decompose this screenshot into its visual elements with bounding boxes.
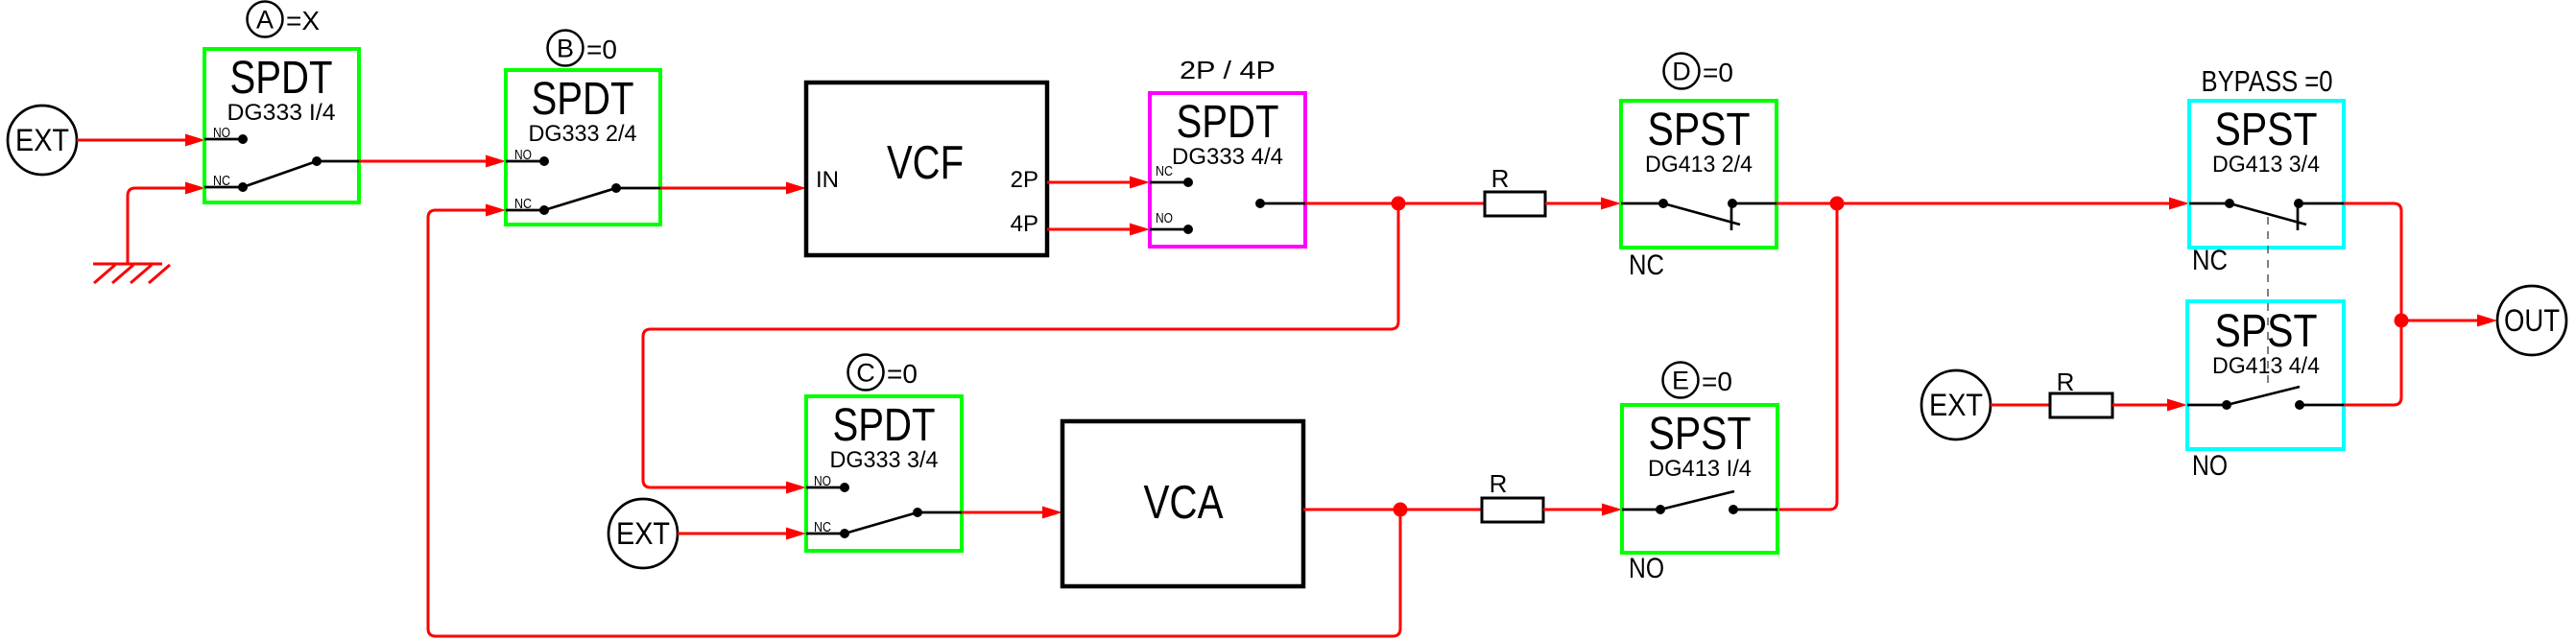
wire D to BYPASS <box>1777 198 2189 210</box>
wire VCA to R2 <box>1303 509 1482 511</box>
terminal EXT bypass <box>1921 370 1991 439</box>
wire EXT to A NO <box>77 134 205 147</box>
svg-text:BYPASS =0: BYPASS =0 <box>2202 64 2333 98</box>
svg-text:NO: NO <box>2192 450 2228 482</box>
resistor R1 <box>1485 164 1545 216</box>
svg-text:SPST: SPST <box>1648 105 1751 155</box>
block VCF <box>806 83 1047 255</box>
wire EXT to R3 <box>1991 404 2050 407</box>
wire A to B <box>359 155 506 168</box>
label 2P / 4P <box>1180 56 1276 84</box>
label C=0 <box>848 355 918 391</box>
switch C SPDT DG333 3/4 <box>806 396 962 551</box>
svg-text:NC: NC <box>1629 249 1664 281</box>
ground <box>93 264 170 283</box>
wire ground to A NC <box>128 182 205 265</box>
svg-text:DG333 3/4: DG333 3/4 <box>830 447 939 473</box>
wire VCF 2P to SPDT NC <box>1047 177 1150 189</box>
svg-text:B: B <box>557 35 574 63</box>
svg-text:SPDT: SPDT <box>833 400 936 451</box>
svg-text:SPDT: SPDT <box>1177 97 1279 148</box>
wire R3 to BYPASS lower <box>2112 399 2187 412</box>
svg-text:R: R <box>1490 469 1508 498</box>
svg-text:NC: NC <box>2192 245 2228 276</box>
terminal EXT input A <box>8 106 77 175</box>
terminal EXT VCA <box>608 499 678 568</box>
node junction VCF out <box>1392 197 1406 211</box>
svg-text:DG413 4/4: DG413 4/4 <box>2212 353 2320 379</box>
wire R2 to E <box>1543 504 1622 516</box>
svg-text:2P: 2P <box>1011 167 1038 193</box>
wire feedback VCA out to B NC <box>428 204 1400 637</box>
svg-text:E: E <box>1672 367 1689 395</box>
wire B to VCF <box>660 182 806 195</box>
svg-text:2P / 4P: 2P / 4P <box>1180 56 1276 84</box>
label E=0 <box>1663 363 1732 398</box>
terminal OUT <box>2497 286 2566 355</box>
wire EXT to C NC <box>678 528 806 540</box>
svg-text:NO: NO <box>1629 553 1664 584</box>
resistor R3 <box>2050 368 2112 417</box>
label D=0 <box>1664 54 1733 89</box>
svg-text:SPST: SPST <box>1649 409 1752 460</box>
svg-text:VCA: VCA <box>1144 477 1224 529</box>
svg-text:DG413 I/4: DG413 I/4 <box>1648 456 1752 482</box>
svg-text:NO: NO <box>1156 211 1173 226</box>
svg-text:=0: =0 <box>887 359 918 389</box>
mechanical link dashed <box>2267 217 2269 384</box>
wire junction to C NO <box>643 203 1398 494</box>
svg-text:SPST: SPST <box>2215 306 2318 357</box>
wire R1 to D <box>1545 198 1621 210</box>
svg-text:EXT: EXT <box>15 123 69 157</box>
svg-text:R: R <box>1491 164 1510 193</box>
wire BYPASS lower to OUT junction <box>2344 320 2401 405</box>
switch D SPST DG413 2/4 <box>1621 101 1777 248</box>
svg-text:EXT: EXT <box>1929 388 1983 422</box>
label A=X <box>248 2 321 37</box>
svg-text:EXT: EXT <box>616 516 670 551</box>
svg-text:SPDT: SPDT <box>230 53 333 104</box>
svg-text:=X: =X <box>286 6 320 36</box>
wire junction to OUT <box>2401 315 2497 327</box>
svg-text:4P: 4P <box>1011 211 1038 237</box>
switch B SPDT DG333 2/4 <box>506 70 660 225</box>
svg-text:IN: IN <box>816 167 839 193</box>
svg-text:SPST: SPST <box>2215 105 2318 155</box>
switch E SPST DG413 1/4 <box>1622 405 1777 553</box>
svg-text:A: A <box>256 6 274 35</box>
switch A SPDT DG333 1/4 <box>204 49 359 202</box>
node junction VCA out <box>1394 503 1408 517</box>
svg-text:DG333 4/4: DG333 4/4 <box>1172 144 1283 170</box>
svg-text:DG413 3/4: DG413 3/4 <box>2212 152 2320 178</box>
block VCA <box>1062 421 1303 586</box>
svg-text:=0: =0 <box>1702 367 1732 396</box>
svg-text:SPDT: SPDT <box>532 74 634 125</box>
svg-text:DG333 2/4: DG333 2/4 <box>529 121 637 147</box>
svg-text:D: D <box>1672 58 1691 86</box>
label B=0 <box>548 31 617 66</box>
switch BYPASS upper SPST DG413 3/4 <box>2189 101 2344 248</box>
wire E to junction <box>1777 203 1837 510</box>
wire SPDT to R1 <box>1305 202 1485 205</box>
switch SPDT DG333 4/4 magenta <box>1150 93 1305 247</box>
svg-text:R: R <box>2057 368 2075 396</box>
wire BYPASS upper to OUT junction <box>2344 203 2401 320</box>
node junction OUT <box>2395 314 2409 328</box>
svg-text:DG413 2/4: DG413 2/4 <box>1645 152 1753 178</box>
svg-text:OUT: OUT <box>2504 303 2560 338</box>
svg-text:DG333 I/4: DG333 I/4 <box>227 100 336 126</box>
wire C to VCA <box>962 507 1062 519</box>
svg-text:=0: =0 <box>1703 58 1733 87</box>
switch BYPASS lower SPST DG413 4/4 <box>2187 301 2344 449</box>
svg-text:NC: NC <box>1156 164 1173 179</box>
svg-text:=0: =0 <box>586 35 617 64</box>
node junction D out <box>1830 197 1845 211</box>
svg-text:VCF: VCF <box>887 137 964 189</box>
resistor R2 <box>1482 469 1543 522</box>
wire VCF 4P to SPDT NO <box>1047 224 1150 236</box>
svg-text:C: C <box>856 359 875 388</box>
